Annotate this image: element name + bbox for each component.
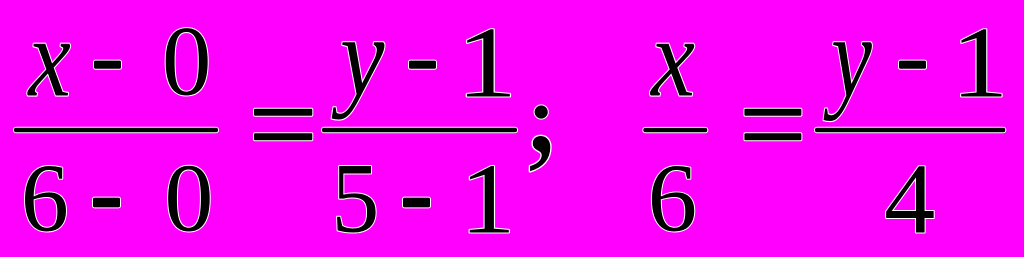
svg-text:y: y (823, 0, 872, 121)
minus sign (y - 1) (409, 61, 436, 69)
fraction bar (fraction 3) (643, 128, 707, 132)
svg-text:6: 6 (648, 144, 698, 252)
svg-text:4: 4 (884, 143, 935, 252)
equals sign 2 bottom bar (744, 133, 801, 140)
svg-text:1: 1 (460, 142, 516, 252)
minus sign (5 - 1) (403, 198, 430, 208)
fraction bar (fraction 1) (14, 128, 218, 133)
equals sign 1 top bar (254, 109, 312, 116)
minus sign (x - 0) (94, 61, 121, 69)
svg-text:,: , (525, 28, 559, 181)
svg-text:5: 5 (331, 144, 379, 252)
svg-text:x: x (27, 0, 71, 120)
equals sign 1 bottom bar (254, 133, 312, 140)
svg-text:0: 0 (162, 5, 212, 116)
svg-text:y: y (332, 0, 385, 120)
semicolon dot (535, 105, 548, 118)
minus sign (y - 1, fraction 4) (899, 61, 926, 69)
fraction bar (fraction 4) (815, 128, 1005, 133)
svg-text:x: x (649, 0, 695, 120)
minus sign (6 - 0) (93, 198, 120, 208)
svg-text:6: 6 (21, 144, 69, 252)
svg-text:1: 1 (456, 7, 517, 119)
equals sign 2 top bar (744, 109, 801, 116)
fraction bar (fraction 2) (322, 128, 517, 133)
svg-text:0: 0 (164, 145, 213, 252)
svg-text:1: 1 (951, 7, 1008, 119)
